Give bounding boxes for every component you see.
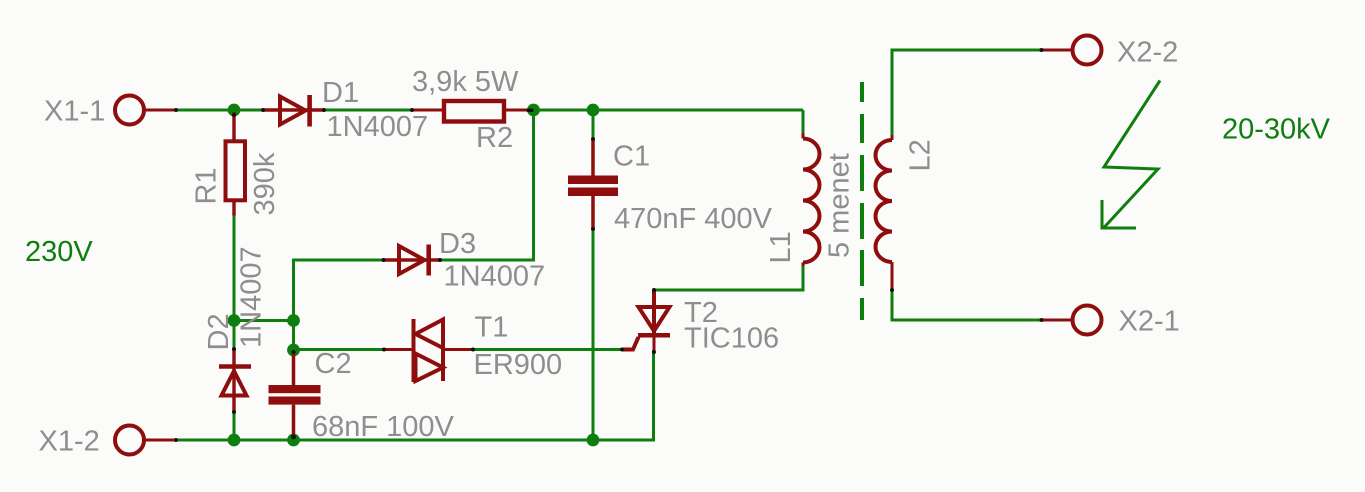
svg-text:68nF 100V: 68nF 100V bbox=[312, 411, 455, 443]
svg-text:ER900: ER900 bbox=[474, 349, 563, 381]
svg-text:1N4007: 1N4007 bbox=[236, 246, 268, 348]
svg-text:D3: D3 bbox=[439, 228, 476, 260]
svg-text:R1: R1 bbox=[191, 167, 223, 204]
svg-text:5 menet: 5 menet bbox=[824, 153, 856, 258]
svg-text:L1: L1 bbox=[765, 231, 797, 263]
svg-text:L2: L2 bbox=[905, 139, 937, 171]
svg-text:X2-1: X2-1 bbox=[1119, 306, 1180, 338]
svg-text:3,9k 5W: 3,9k 5W bbox=[412, 66, 519, 98]
svg-text:D2: D2 bbox=[203, 313, 235, 350]
svg-text:R2: R2 bbox=[476, 122, 513, 154]
svg-text:20-30kV: 20-30kV bbox=[1222, 114, 1331, 146]
svg-text:1N4007: 1N4007 bbox=[327, 111, 429, 143]
svg-text:470nF 400V: 470nF 400V bbox=[614, 203, 773, 235]
svg-text:T1: T1 bbox=[475, 312, 509, 344]
svg-text:D1: D1 bbox=[322, 77, 359, 109]
svg-text:TIC106: TIC106 bbox=[684, 323, 779, 355]
svg-text:390k: 390k bbox=[249, 152, 281, 215]
svg-text:C1: C1 bbox=[613, 141, 650, 173]
svg-text:X2-2: X2-2 bbox=[1117, 37, 1178, 69]
svg-text:230V: 230V bbox=[25, 236, 93, 268]
svg-text:C2: C2 bbox=[315, 348, 352, 380]
svg-text:1N4007: 1N4007 bbox=[444, 261, 546, 293]
svg-text:X1-2: X1-2 bbox=[39, 426, 100, 458]
svg-text:X1-1: X1-1 bbox=[44, 96, 105, 128]
